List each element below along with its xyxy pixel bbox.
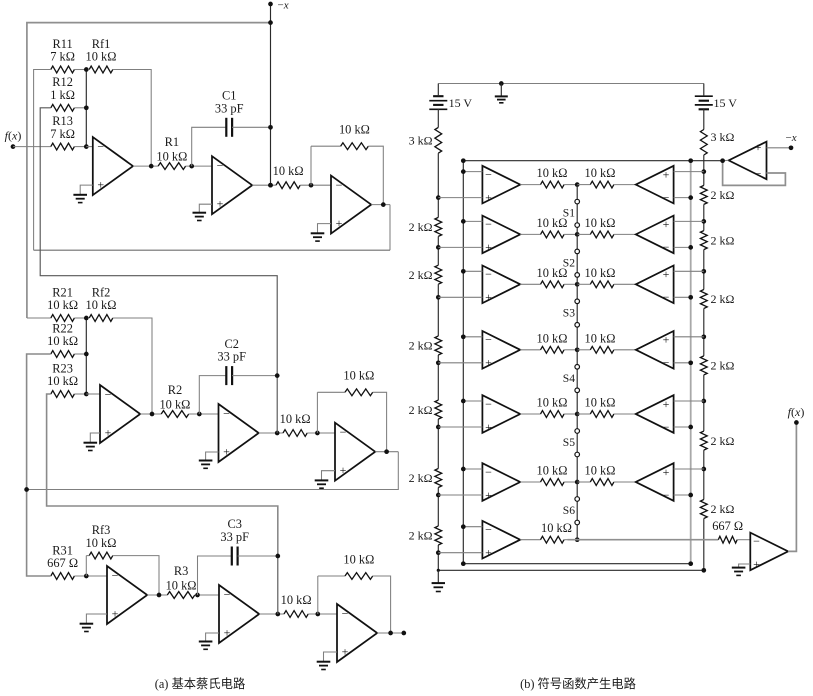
- junction A5 - input: [461, 399, 466, 404]
- resistor 10k B3 out: [577, 281, 636, 288]
- resistor R2k left 6 2 kΩ: [435, 526, 442, 545]
- node z output terminal: [401, 631, 406, 636]
- wire A7 output: [520, 539, 540, 541]
- resistor R3k left 3 kΩ: [435, 127, 442, 153]
- svg-text:10 kΩ: 10 kΩ: [541, 521, 572, 535]
- junction ladder bottom right: [701, 568, 706, 573]
- node -x bus: [270, 4, 272, 185]
- svg-text:+: +: [112, 607, 119, 621]
- svg-text:−: −: [753, 534, 760, 548]
- resistor R22 10 kΩ: [51, 351, 87, 358]
- svg-text:2 kΩ: 2 kΩ: [711, 188, 735, 202]
- wire A9 + to ground: [739, 564, 751, 568]
- wire A3 + input from ladder: [438, 296, 482, 298]
- resistor R2k right 5 2 kΩ: [700, 431, 707, 450]
- label 10k A6: [537, 464, 568, 478]
- junction block2 output feedback: [24, 487, 29, 492]
- svg-text:−: −: [105, 387, 112, 401]
- label R2k left 1: [409, 220, 433, 234]
- svg-text:−: −: [485, 333, 492, 347]
- label R2k left 4: [409, 403, 433, 417]
- junction C3 bus: [275, 554, 280, 559]
- op-amp B2 right comparator: [636, 216, 674, 255]
- wire A3 output: [520, 283, 540, 285]
- svg-text:+: +: [224, 626, 231, 640]
- junction R22 node: [84, 352, 89, 357]
- wire inverting-node column block 1: [85, 70, 87, 147]
- label f(x) input: [5, 129, 22, 143]
- svg-text:+: +: [97, 178, 104, 192]
- svg-text:10 kΩ: 10 kΩ: [537, 464, 568, 478]
- junction left ladder node 7: [436, 550, 441, 555]
- svg-text:−: −: [485, 217, 492, 231]
- svg-text:−: −: [663, 420, 670, 434]
- ground op U1b: [193, 213, 207, 221]
- wire A7 - input from -x bus: [463, 526, 482, 528]
- junction right ladder node 4: [701, 334, 706, 339]
- label 10k feedback block 3: [343, 552, 374, 566]
- wire A8 + input to -x terminal: [767, 147, 792, 149]
- resistor 10k mid block 3: [284, 611, 337, 618]
- svg-text:667 Ω: 667 Ω: [712, 519, 743, 533]
- junction right ladder node 5: [701, 399, 706, 404]
- svg-text:7 kΩ: 7 kΩ: [50, 50, 75, 64]
- svg-text:+: +: [663, 167, 670, 181]
- junction C2 bus: [275, 373, 280, 378]
- svg-text:10 kΩ: 10 kΩ: [537, 331, 568, 345]
- wire left ladder seg 3: [437, 284, 439, 336]
- svg-text:10 kΩ: 10 kΩ: [159, 397, 190, 411]
- svg-text:1 kΩ: 1 kΩ: [50, 88, 75, 102]
- svg-text:S5: S5: [563, 436, 575, 449]
- junction bus block 2: [275, 431, 280, 436]
- wire A7 + input from ladder: [438, 552, 482, 554]
- wire A6 output: [520, 481, 540, 483]
- node -x input terminal (b): [789, 145, 794, 150]
- junction S-column row 2: [575, 232, 580, 237]
- wire op U3c output: [377, 632, 404, 634]
- svg-text:10 kΩ: 10 kΩ: [156, 149, 187, 163]
- wire B4 + input to ladder: [674, 336, 704, 338]
- svg-text:(a) 基本蔡氏电路: (a) 基本蔡氏电路: [155, 676, 246, 691]
- junction bus block 3: [275, 612, 280, 617]
- op-amp A2 left comparator: [482, 216, 520, 255]
- svg-text:10 kΩ: 10 kΩ: [585, 266, 616, 280]
- wire op U3c + to ground: [324, 652, 338, 662]
- svg-text:10 kΩ: 10 kΩ: [537, 166, 568, 180]
- wire -x feedback frame from -x bus to R21: [27, 23, 271, 318]
- wire op U2a + to ground: [90, 433, 100, 443]
- resistor Rf1 10 kΩ: [89, 66, 151, 166]
- svg-text:+: +: [663, 465, 670, 479]
- label V1 15 V: [449, 96, 473, 110]
- node f(x) input terminal: [11, 144, 16, 149]
- wire B5 + input to ladder: [674, 400, 704, 402]
- svg-text:15 V: 15 V: [449, 96, 473, 110]
- svg-text:2 kΩ: 2 kΩ: [711, 292, 735, 306]
- svg-text:+: +: [663, 333, 670, 347]
- label R2k left 3: [409, 339, 433, 353]
- label 10k A5: [537, 396, 568, 410]
- junction C1 branch: [189, 164, 194, 169]
- wire B2 - input to bus: [674, 246, 691, 248]
- label 10k feedback block 1: [339, 123, 370, 137]
- op-amp B5 right comparator: [636, 395, 674, 434]
- label R2k left 5: [409, 471, 433, 485]
- svg-text:10 kΩ: 10 kΩ: [281, 593, 312, 607]
- junction left ladder node 1: [436, 195, 441, 200]
- junction R11/Rf: [84, 67, 89, 72]
- junction A3 - input: [461, 269, 466, 274]
- wire -x bus box left: [462, 161, 464, 564]
- svg-text:10 kΩ: 10 kΩ: [166, 578, 197, 592]
- svg-text:R1: R1: [165, 135, 179, 149]
- label R667: [712, 519, 743, 533]
- resistor R2k left 4 2 kΩ: [435, 400, 442, 419]
- label Rf3: [86, 523, 117, 550]
- op-amp U2c inverter: [335, 423, 375, 481]
- node f(x) output terminal: [794, 420, 799, 425]
- label R2k right 5: [711, 434, 735, 448]
- svg-text:10 kΩ: 10 kΩ: [86, 536, 117, 550]
- junction R21/Rf: [84, 316, 89, 321]
- ground op U1a: [73, 195, 87, 203]
- wire switch column S2: [576, 234, 578, 284]
- label 10k B3: [585, 266, 616, 280]
- label S4: [563, 372, 575, 385]
- wire A4 - input from -x bus: [463, 336, 482, 338]
- svg-text:10 kΩ: 10 kΩ: [537, 396, 568, 410]
- junction S-column row 5: [575, 412, 580, 417]
- label R3: [166, 564, 197, 592]
- op-amp U3b integrator: [219, 585, 259, 643]
- wire A4 + input from ladder: [438, 362, 482, 364]
- switch S1: [575, 199, 580, 227]
- junction box top-left: [461, 158, 466, 163]
- wire Rf3 branch: [85, 556, 87, 576]
- junction B5 - input: [688, 425, 693, 430]
- wire B3 - input to bus: [674, 296, 691, 298]
- junction right ladder node 6: [701, 467, 706, 472]
- svg-text:+: +: [342, 645, 349, 659]
- resistor R23 10 kΩ: [51, 391, 87, 398]
- svg-text:−: −: [485, 267, 492, 281]
- svg-text:f(x): f(x): [5, 129, 22, 143]
- svg-text:10 kΩ: 10 kΩ: [47, 334, 78, 348]
- svg-text:3 kΩ: 3 kΩ: [409, 134, 433, 148]
- junction A7 - input: [461, 524, 466, 529]
- junction A1 - input: [461, 169, 466, 174]
- wire A8 feedback loop: [723, 161, 786, 186]
- label 10k B2: [585, 216, 616, 230]
- svg-text:10 kΩ: 10 kΩ: [585, 216, 616, 230]
- junction A8 output: [720, 158, 725, 163]
- label R23: [47, 361, 78, 388]
- junction right ladder node 2: [701, 219, 706, 224]
- resistor 10k mid block 2: [283, 430, 335, 437]
- svg-text:S2: S2: [563, 256, 575, 269]
- resistor R21 10 kΩ: [51, 315, 87, 322]
- wire A9 output to f(x) terminal: [788, 423, 796, 552]
- svg-text:R2: R2: [168, 383, 182, 397]
- junction Rf1 output node: [149, 164, 154, 169]
- label R2k right 2: [711, 233, 735, 247]
- resistor R2k left 2 2 kΩ: [435, 265, 442, 284]
- wire left ladder seg 6: [437, 488, 439, 527]
- label C1: [215, 89, 244, 116]
- resistor R2k right 2 2 kΩ: [700, 231, 707, 250]
- wire op U2b output: [259, 432, 283, 434]
- wire row7 output: [568, 539, 719, 541]
- wire A5 - input from -x bus: [463, 400, 482, 402]
- wire right ladder seg 4: [703, 309, 705, 356]
- label 10k B1: [585, 166, 616, 180]
- label S5: [563, 436, 575, 449]
- resistor 10k B5 out: [577, 411, 636, 418]
- svg-text:−: −: [663, 356, 670, 370]
- label R13: [50, 114, 75, 141]
- resistor R3 10 kΩ: [167, 592, 219, 599]
- junction C3 branch: [195, 593, 200, 598]
- label 10k A3: [537, 266, 568, 280]
- ground op U1c: [311, 233, 325, 241]
- wire switch column S4: [576, 350, 578, 414]
- wire left ladder seg 5: [437, 419, 439, 468]
- junction R23 node: [84, 392, 89, 397]
- wire right ladder bottom: [703, 519, 705, 571]
- op-amp A3 left comparator: [482, 266, 520, 305]
- resistor 10k A6 out: [541, 479, 578, 486]
- op-amp U1c inverter: [331, 176, 371, 234]
- junction op U2c output: [384, 449, 389, 454]
- svg-text:10 kΩ: 10 kΩ: [86, 50, 117, 64]
- op-amp A7 left comparator: [482, 521, 520, 560]
- label 10k mid block 1: [273, 164, 304, 178]
- junction fb node block 2: [315, 431, 320, 436]
- op-amp A9 f(x) summing: [750, 533, 788, 572]
- resistor R2k right 3 2 kΩ: [700, 290, 707, 309]
- svg-text:−: −: [342, 606, 349, 620]
- resistor R2k right 6 2 kΩ: [700, 500, 707, 519]
- svg-text:10 kΩ: 10 kΩ: [47, 374, 78, 388]
- wire op U2c output: [375, 451, 398, 453]
- svg-text:2 kΩ: 2 kΩ: [711, 359, 735, 373]
- wire op U3b output: [259, 613, 284, 615]
- wire right ladder seg 1: [703, 155, 705, 185]
- svg-text:33 pF: 33 pF: [220, 530, 249, 544]
- resistor Rf3 10 kΩ: [86, 552, 159, 595]
- wire op U1a output: [133, 165, 158, 167]
- junction B6 - input: [688, 493, 693, 498]
- label R31: [47, 543, 78, 570]
- svg-text:3 kΩ: 3 kΩ: [711, 130, 735, 144]
- wire A3 - input from -x bus: [463, 270, 482, 272]
- label S3: [563, 306, 575, 319]
- junction -x bus / frame: [268, 20, 273, 25]
- node block3 bus: [277, 556, 279, 614]
- op-amp U1a: [93, 137, 133, 195]
- junction top rail ground: [499, 81, 504, 86]
- label V2 15 V: [714, 96, 738, 110]
- svg-text:+: +: [755, 140, 762, 154]
- wire switch column S5: [576, 414, 578, 482]
- svg-text:10 kΩ: 10 kΩ: [86, 298, 117, 312]
- resistor R2 10 kΩ: [161, 411, 218, 418]
- label 10k B4: [585, 331, 616, 345]
- resistor R2k right 1 2 kΩ: [700, 185, 707, 204]
- svg-text:+: +: [336, 216, 343, 230]
- wire op U2a output: [140, 413, 161, 415]
- ground op U3b: [199, 642, 213, 650]
- svg-text:−: −: [755, 167, 762, 181]
- label 10k feedback block 2: [343, 369, 374, 383]
- wire feedback box block 2 (output to R22/R31): [27, 354, 399, 576]
- svg-text:+: +: [217, 197, 224, 211]
- label Rf1: [86, 37, 117, 64]
- svg-text:−: −: [340, 425, 347, 439]
- junction left ladder node 4: [436, 360, 441, 365]
- svg-text:−: −: [224, 587, 231, 601]
- wire A4 output: [520, 349, 540, 351]
- op-amp B1 right comparator: [636, 166, 674, 205]
- svg-text:2 kΩ: 2 kΩ: [711, 502, 735, 516]
- svg-text:15 V: 15 V: [714, 96, 738, 110]
- op-amp U2a: [100, 385, 140, 443]
- junction box bottom-left: [461, 561, 466, 566]
- resistor R11 7 kΩ: [51, 66, 87, 73]
- wire op U3b + to ground: [206, 633, 219, 642]
- junction S-column row 1: [575, 182, 580, 187]
- svg-text:+: +: [485, 488, 492, 502]
- wire left ladder top: [437, 109, 439, 127]
- junction B2 - input: [688, 245, 693, 250]
- wire inverting-node column block 2: [85, 318, 87, 394]
- switch S3: [575, 299, 580, 327]
- wire -x bus box bottom: [463, 563, 690, 565]
- wire A5 + input from ladder: [438, 426, 482, 428]
- wire ground rail bottom: [438, 569, 704, 571]
- ground op U2b: [199, 461, 213, 469]
- resistor R31 667 Ω: [51, 573, 107, 580]
- svg-text:10 kΩ: 10 kΩ: [339, 123, 370, 137]
- op-amp U1b integrator: [212, 156, 252, 214]
- wire B4 - input to bus: [674, 362, 691, 364]
- svg-text:+: +: [223, 445, 230, 459]
- junction S-column row 7: [575, 537, 580, 542]
- wire A1 + input from ladder: [438, 197, 482, 199]
- label R2k right 3: [711, 292, 735, 306]
- svg-text:S6: S6: [563, 504, 575, 517]
- junction B3 - input: [688, 295, 693, 300]
- label R1: [156, 135, 187, 163]
- junction left ladder node 2: [436, 245, 441, 250]
- resistor R667 667 Ohm: [718, 536, 750, 543]
- wire op U1b output: [252, 184, 276, 186]
- battery V1 15 V: [429, 84, 447, 110]
- svg-text:−: −: [663, 190, 670, 204]
- resistor 10k feedback block 2: [317, 389, 386, 452]
- wire left ladder seg 2: [437, 236, 439, 265]
- switch S5: [575, 429, 580, 457]
- svg-text:10 kΩ: 10 kΩ: [47, 298, 78, 312]
- svg-text:10 kΩ: 10 kΩ: [273, 164, 304, 178]
- wire op U1c + to ground: [318, 224, 332, 234]
- wire C1 to bus: [232, 126, 270, 128]
- ground top rail: [495, 84, 508, 103]
- junction fb node block 1: [309, 183, 314, 188]
- resistor R2k right 4 2 kΩ: [700, 356, 707, 375]
- svg-text:−: −: [336, 178, 343, 192]
- junction box top-right bus: [688, 158, 693, 163]
- switch S2: [575, 249, 580, 277]
- resistor 10k A5 out: [541, 411, 578, 418]
- label S2: [563, 256, 575, 269]
- wire right ladder seg 5: [703, 375, 705, 431]
- label R11: [50, 37, 75, 64]
- wire C2 to bus: [232, 375, 277, 377]
- ground bottom rail: [432, 570, 445, 591]
- resistor R3k right 3 kΩ: [700, 130, 707, 156]
- svg-text:−x: −x: [278, 0, 289, 12]
- capacitor C1 33 pF: [226, 118, 232, 137]
- resistor 10k A1 out: [541, 181, 578, 188]
- resistor 10k feedback block 1: [311, 143, 383, 205]
- junction S-column row 3: [575, 282, 580, 287]
- label 10k A2: [537, 216, 568, 230]
- label f(x) output: [788, 405, 805, 419]
- junction right ladder node 1: [701, 169, 706, 174]
- op-amp U2b integrator: [219, 404, 259, 462]
- wire right ladder seg 6: [703, 450, 705, 499]
- wire op U2c + to ground: [322, 471, 336, 481]
- svg-text:−: −: [663, 240, 670, 254]
- label R22: [47, 321, 78, 348]
- switch S4: [575, 365, 580, 393]
- label S6: [563, 504, 575, 517]
- label R2: [159, 383, 190, 411]
- junction A2 - input: [461, 219, 466, 224]
- junction box bottom-right: [688, 561, 693, 566]
- ground op U2a: [84, 443, 98, 451]
- wire C2 branch: [199, 376, 226, 414]
- junction fb node block 3: [315, 612, 320, 617]
- wire switch column S3: [576, 284, 578, 350]
- svg-text:10 kΩ: 10 kΩ: [585, 166, 616, 180]
- svg-text:S1: S1: [563, 207, 575, 220]
- svg-text:−: −: [485, 397, 492, 411]
- wire B2 + input to ladder: [674, 220, 704, 222]
- wire A2 - input from -x bus: [463, 220, 482, 222]
- junction op U3c output: [388, 631, 393, 636]
- wire op U1c output: [371, 204, 390, 206]
- op-amp A4 left comparator: [482, 331, 520, 370]
- resistor 10k A3 out: [541, 281, 578, 288]
- resistor 10k A2 out: [541, 231, 578, 238]
- battery V2 15 V: [695, 84, 713, 110]
- wire op U3a output: [147, 594, 167, 596]
- svg-text:2 kΩ: 2 kΩ: [409, 403, 433, 417]
- op-amp A5 left comparator: [482, 395, 520, 434]
- resistor R12 1 kΩ: [51, 104, 87, 111]
- wire A1 output: [520, 184, 540, 186]
- wire B1 + input to ladder: [674, 171, 704, 173]
- junction right ladder node 3: [701, 269, 706, 274]
- label R3k left: [409, 134, 433, 148]
- wire top supply rail: [438, 83, 704, 85]
- op-amp B6 right comparator: [636, 463, 674, 502]
- label R12: [50, 75, 75, 102]
- ground op U2c: [315, 480, 329, 488]
